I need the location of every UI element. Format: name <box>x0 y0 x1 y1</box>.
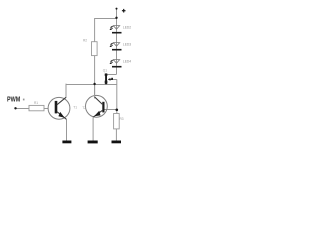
svg-text:R3: R3 <box>120 117 124 121</box>
svg-text:LED3: LED3 <box>123 43 131 47</box>
svg-text:T2: T2 <box>82 106 86 110</box>
svg-text:R2: R2 <box>83 39 87 43</box>
svg-text:LED2: LED2 <box>123 26 131 30</box>
svg-text:LED4: LED4 <box>123 60 131 64</box>
svg-text:R1: R1 <box>34 101 38 105</box>
svg-text:T1: T1 <box>73 106 77 110</box>
svg-text:PWM: PWM <box>7 95 20 104</box>
svg-text:Q1: Q1 <box>103 68 107 72</box>
